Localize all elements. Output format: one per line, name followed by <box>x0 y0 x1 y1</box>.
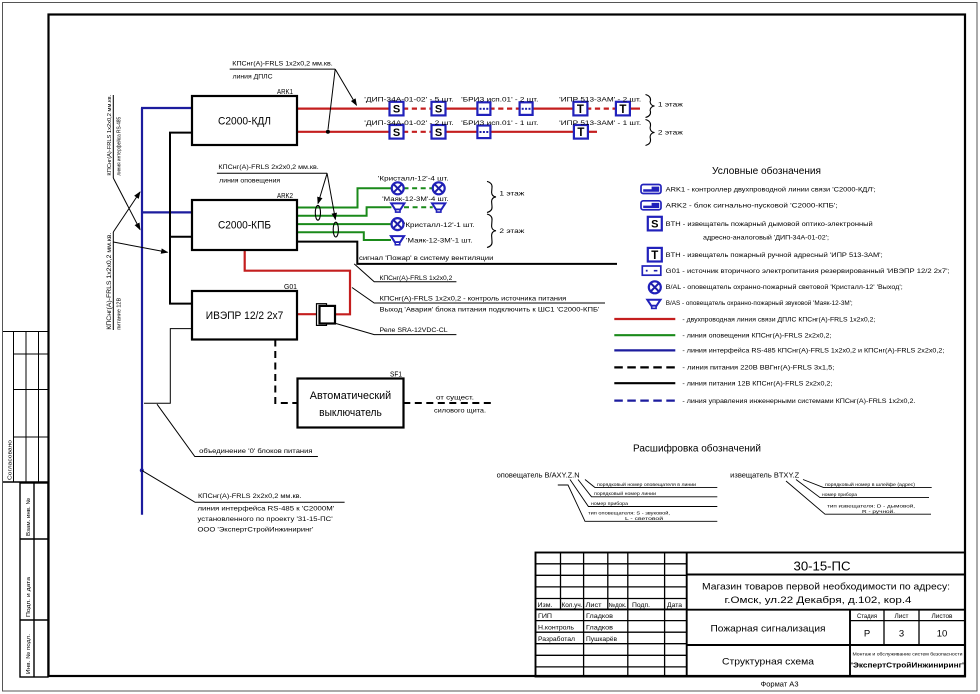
svg-text:ARK1: ARK1 <box>277 89 293 96</box>
svg-text:- двухпроводная линия связи ДП: - двухпроводная линия связи ДПЛС КПСнг(А… <box>682 316 875 323</box>
svg-text:порядковый номер в шлейфе (адр: порядковый номер в шлейфе (адрес) <box>825 481 916 487</box>
svg-text:Расшифровка обозначений: Расшифровка обозначений <box>633 443 761 455</box>
svg-text:T: T <box>619 104 626 116</box>
svg-text:ARK2 - блок сигнально-пусковой: ARK2 - блок сигнально-пусковой 'С2000-КП… <box>666 202 838 210</box>
detector: manual IPR floor1 #1 <box>573 102 587 116</box>
svg-text:'БРИЗ исп.01' - 2 шт.: 'БРИЗ исп.01' - 2 шт. <box>461 96 538 103</box>
svg-text:Условные обозначения: Условные обозначения <box>712 165 821 177</box>
device ARK2: C2000-KPB block <box>192 200 297 250</box>
svg-text:Структурная схема: Структурная схема <box>722 657 815 668</box>
svg-text:- линия питания 12В КПСнг(А)-F: - линия питания 12В КПСнг(А)-FRLS 2х2х0,… <box>682 381 832 388</box>
svg-text:№док.: №док. <box>609 602 627 609</box>
wire: DPLS loop floor1 red segments <box>297 107 640 109</box>
svg-text:S: S <box>651 219 658 231</box>
wire: notification line 1 (Kristall floor1) <box>297 188 392 207</box>
svg-text:- линия оповещения КПСнг(А)-FR: - линия оповещения КПСнг(А)-FRLS 2х2х0,2… <box>682 333 831 340</box>
svg-text:ARK2: ARK2 <box>277 193 293 200</box>
wire: notification line 3 (Kristall floor2) <box>297 223 392 225</box>
svg-text:Подп.: Подп. <box>632 603 650 609</box>
wire: 12V branch to C2000-KPB <box>169 236 192 238</box>
svg-text:номер прибора: номер прибора <box>591 501 628 506</box>
svg-text:'ИПР 513-3АМ' - 2 шт.: 'ИПР 513-3АМ' - 2 шт. <box>559 96 641 103</box>
svg-text:SF1: SF1 <box>390 372 402 379</box>
sounder: Mayak-12 floor1 #1 <box>391 203 404 212</box>
svg-text:'ДИП-34А-01-02' - 2 шт.: 'ДИП-34А-01-02' - 2 шт. <box>364 120 454 127</box>
svg-text:КПСнг(А)-FRLS 1х2х0,2 мм.кв.: КПСнг(А)-FRLS 1х2х0,2 мм.кв. <box>106 232 113 329</box>
svg-text:Кол.уч.: Кол.уч. <box>562 603 583 609</box>
svg-text:С2000-КДЛ: С2000-КДЛ <box>218 116 271 128</box>
svg-text:ООО 'ЭкспертСтройИнжиниринг': ООО 'ЭкспертСтройИнжиниринг' <box>198 526 314 534</box>
svg-text:ИВЭПР 12/2 2х7: ИВЭПР 12/2 2х7 <box>206 310 284 322</box>
svg-text:от сущест.: от сущест. <box>436 395 474 402</box>
svg-text:ГИП: ГИП <box>538 613 552 620</box>
svg-text:объединение '0' блоков питания: объединение '0' блоков питания <box>199 447 313 455</box>
svg-text:линия ДПЛС: линия ДПЛС <box>233 74 273 81</box>
svg-text:КПСнг(А)-FRLS 1х2х0,2 мм.кв.: КПСнг(А)-FRLS 1х2х0,2 мм.кв. <box>232 61 333 68</box>
svg-text:Изм.: Изм. <box>538 603 553 609</box>
svg-text:номер прибора: номер прибора <box>822 492 857 497</box>
svg-text:линия интерфейса RS-485 к 'С2: линия интерфейса RS-485 к 'С2000М' <box>198 505 335 513</box>
leaders RS-485 label <box>113 178 140 230</box>
device ARK1: C2000-KDL controller <box>192 96 297 145</box>
sounder: Mayak-12 floor2 <box>391 236 404 245</box>
svg-text:Гладков: Гладков <box>586 613 614 620</box>
detector: smoke DIP-34A floor2 #2 <box>432 125 446 139</box>
module: BRIZ floor1 #1 <box>477 102 490 115</box>
wire: 12V power black vertical trunk <box>169 133 171 304</box>
legend icon power supply G01 <box>642 266 661 275</box>
svg-text:ARK1 - контроллер двухпроводно: ARK1 - контроллер двухпроводной линии св… <box>666 185 876 193</box>
wire: blue branch to C2000-KDL <box>141 107 192 109</box>
svg-text:- линия интерфейса RS-485 КПСн: - линия интерфейса RS-485 КПСнг(А)-FRLS … <box>682 347 944 355</box>
svg-text:КПСнг(А)-FRLS 1х2х0,2 - контро: КПСнг(А)-FRLS 1х2х0,2 - контроль источни… <box>380 295 567 302</box>
wire: notification line 2 (Mayak floor1) <box>297 207 391 216</box>
leader to ellipse 1 <box>318 173 327 203</box>
svg-text:S: S <box>393 127 400 139</box>
module: BRIZ floor2 <box>477 126 490 139</box>
annunciator: Kristall-12 floor2 <box>392 218 404 230</box>
svg-text:BTH - извещатель пожарный ручн: BTH - извещатель пожарный ручной адресны… <box>666 251 883 259</box>
svg-text:Реле SRA-12VDC-CL: Реле SRA-12VDC-CL <box>380 327 449 334</box>
svg-text:1 этаж: 1 этаж <box>499 191 525 198</box>
wire: DPLS loop floor2 red segments <box>297 131 597 133</box>
svg-text:г.Омск, ул.22 Декабря, д.102,: г.Омск, ул.22 Декабря, д.102, кор.4 <box>725 595 912 605</box>
detector: smoke DIP-34A floor1 #1 <box>390 102 404 116</box>
wire: blue branch to C2000-KPB <box>141 211 192 213</box>
svg-text:оповещатель B/AXY.Z.N: оповещатель B/AXY.Z.N <box>497 473 580 480</box>
svg-text:Н.контроль: Н.контроль <box>538 625 575 632</box>
device SF1: automatic circuit breaker <box>298 379 404 428</box>
svg-text:'ДИП-34А-01-02' - 5 шт.: 'ДИП-34А-01-02' - 5 шт. <box>364 96 454 103</box>
svg-text:B/AS - оповещатель охранно-пож: B/AS - оповещатель охранно-пожарный звук… <box>666 299 853 307</box>
module: BRIZ floor1 #2 <box>520 102 533 115</box>
brace floor1 (notification) <box>487 181 496 212</box>
svg-text:Гладков: Гладков <box>586 625 614 632</box>
svg-text:R - ручной.: R - ручной. <box>862 508 895 514</box>
svg-text:T: T <box>577 127 584 139</box>
svg-text:L - световой: L - световой <box>625 515 664 521</box>
svg-text:'ИПР 513-3АМ' - 1 шт.: 'ИПР 513-3АМ' - 1 шт. <box>559 120 641 127</box>
annunciator: Kristall-12 floor1 #1 <box>392 182 404 194</box>
wire: IVEPR output to relay <box>297 313 320 315</box>
svg-text:извещатель BTXY.Z: извещатель BTXY.Z <box>730 473 800 480</box>
svg-text:Согласовано: Согласовано <box>8 440 14 480</box>
wire: 220V mains dashed from breaker to existing panel <box>403 402 491 404</box>
svg-text:силового щита.: силового щита. <box>434 408 486 415</box>
svg-text:порядковый номер оповещателя в: порядковый номер оповещателя в линии <box>597 481 696 487</box>
svg-text:'ЭкспертСтройИнжиниринг': 'ЭкспертСтройИнжиниринг' <box>851 661 964 670</box>
svg-text:выключатель: выключатель <box>319 407 382 419</box>
wire: power supply monitoring red line KPB to relay <box>245 250 350 314</box>
brace floor2 (notification) <box>487 214 496 248</box>
cable group mark ellipse 1 <box>315 205 320 220</box>
wire: RS-485 interface blue vertical trunk <box>141 108 143 515</box>
svg-text:B/AL - оповещатель охранно-пож: B/AL - оповещатель охранно-пожарный свет… <box>666 283 903 291</box>
svg-text:'Маяк-12-3М'-4 шт.: 'Маяк-12-3М'-4 шт. <box>382 196 449 203</box>
svg-text:10: 10 <box>937 629 948 640</box>
wire: 12V branch to IVEPR <box>169 303 192 305</box>
svg-text:Монтаж и обслуживание систем б: Монтаж и обслуживание систем безопасност… <box>853 652 964 657</box>
svg-text:Пожарная сигнализация: Пожарная сигнализация <box>711 624 826 635</box>
svg-text:Магазин товаров первой необход: Магазин товаров первой необходимости по … <box>702 582 950 592</box>
relay SRA-12VDC-CL symbol <box>317 304 336 326</box>
svg-text:Выход 'Авария' блока питания п: Выход 'Авария' блока питания подключить … <box>380 306 600 314</box>
title block grid <box>536 553 966 677</box>
wire: notification line 4 (Mayak floor2) <box>297 232 391 240</box>
legend icon manual detector <box>648 248 662 262</box>
detector: smoke DIP-34A floor2 #1 <box>390 125 404 139</box>
svg-text:S: S <box>435 127 442 139</box>
wire: 12V branch to C2000-KDL <box>169 132 192 134</box>
svg-text:2 этаж: 2 этаж <box>499 228 525 235</box>
device G01: IVEPR 12/2 power supply <box>192 291 297 340</box>
svg-text:Лист: Лист <box>586 603 602 609</box>
svg-text:G01 - источник вторичного элек: G01 - источник вторичного электропитания… <box>666 267 950 275</box>
svg-text:адресно-аналоговый 'ДИП-34А-01: адресно-аналоговый 'ДИП-34А-01-02'; <box>703 234 829 242</box>
svg-text:Пушкарёв: Пушкарёв <box>586 636 618 643</box>
legend icon ARK2 <box>641 201 661 210</box>
svg-text:Листов: Листов <box>932 614 953 620</box>
svg-text:порядковый номер линии: порядковый номер линии <box>594 490 656 496</box>
svg-text:S: S <box>435 104 442 116</box>
svg-text:- линия управления инженерными: - линия управления инженерными системами… <box>682 398 915 405</box>
svg-text:КПСнг(А)-FRLS 2х2х0,2 мм.кв.: КПСнг(А)-FRLS 2х2х0,2 мм.кв. <box>218 164 319 171</box>
svg-text:G01: G01 <box>284 284 297 291</box>
svg-text:Инв. № подл.: Инв. № подл. <box>26 633 32 674</box>
svg-text:Автоматический: Автоматический <box>310 390 391 402</box>
svg-text:BTH - извещатель пожарный дымо: BTH - извещатель пожарный дымовой оптико… <box>666 220 873 228</box>
wire: zero-bus thin line from IVEPR <box>144 329 192 404</box>
svg-text:сигнал 'Пожар' в систему венти: сигнал 'Пожар' в систему вентиляции <box>359 255 494 262</box>
svg-text:Лист: Лист <box>895 614 909 620</box>
left margin table (Согласовано) <box>3 332 48 483</box>
leader to DPLS floor1 line <box>335 69 356 105</box>
svg-text:линия оповещения: линия оповещения <box>219 178 280 185</box>
svg-text:С2000-КПБ: С2000-КПБ <box>218 220 271 232</box>
svg-text:S: S <box>393 104 400 116</box>
svg-text:КПСнг(А)-FRLS 2х2х0,2 мм.кв.: КПСнг(А)-FRLS 2х2х0,2 мм.кв. <box>198 493 302 500</box>
svg-text:Подп. и дата: Подп. и дата <box>26 576 32 617</box>
detector: smoke DIP-34A floor1 #2 <box>432 102 446 116</box>
svg-text:тип оповещателя: S - звуковой,: тип оповещателя: S - звуковой, <box>588 510 670 516</box>
sounder: Mayak-12 floor1 #2 <box>432 203 445 212</box>
brace floor1 (DPLS) <box>646 95 655 118</box>
svg-text:T: T <box>651 250 658 262</box>
legend icon smoke detector <box>648 217 662 231</box>
svg-text:Разработал: Разработал <box>538 635 575 643</box>
svg-text:Дата: Дата <box>667 603 683 609</box>
svg-text:'Кристалл-12'-1 шт.: 'Кристалл-12'-1 шт. <box>404 222 475 229</box>
svg-text:2 этаж: 2 этаж <box>658 130 684 137</box>
legend line samples <box>614 318 675 320</box>
wire: 220V mains dashed from IVEPR to breaker <box>275 340 297 404</box>
svg-text:3: 3 <box>899 629 904 640</box>
legend icon ARK1 <box>641 185 661 194</box>
leader to DPLS floor2 line <box>328 69 335 129</box>
leader to ellipse 2 <box>327 173 335 219</box>
node: blue junction on RS-485 trunk <box>140 468 144 472</box>
svg-text:30-15-ПС: 30-15-ПС <box>794 560 851 574</box>
svg-text:установленного по проекту '31-: установленного по проекту '31-15-ПС' <box>198 516 333 523</box>
legend icon Kristall <box>649 281 661 293</box>
detector: manual IPR floor1 #2 <box>616 102 630 116</box>
cable group mark ellipse 2 <box>333 222 338 237</box>
svg-text:тип извещателя: D - дымовой,: тип извещателя: D - дымовой, <box>827 503 915 509</box>
svg-text:КПСнг(А)-FRLS 1х2х0,2 мм.кв.: КПСнг(А)-FRLS 1х2х0,2 мм.кв. <box>107 94 113 175</box>
svg-text:Формат А3: Формат А3 <box>761 682 799 689</box>
annunciator: Kristall-12 floor1 #2 <box>433 182 445 194</box>
svg-text:'Маяк-12-3М'-1 шт.: 'Маяк-12-3М'-1 шт. <box>406 238 473 245</box>
svg-text:'Кристалл-12'-4 шт.: 'Кристалл-12'-4 шт. <box>378 176 449 183</box>
svg-text:питание 12В: питание 12В <box>117 298 123 330</box>
svg-text:'БРИЗ исп.01' - 1 шт.: 'БРИЗ исп.01' - 1 шт. <box>461 120 538 127</box>
svg-text:Взам. инв. №: Взам. инв. № <box>26 498 32 536</box>
svg-text:Р: Р <box>864 629 870 640</box>
svg-text:- линия питания 220В ВВГнг(А)-: - линия питания 220В ВВГнг(А)-FRLS 3х1,5… <box>682 365 834 372</box>
svg-text:T: T <box>577 104 584 116</box>
svg-text:1 этаж: 1 этаж <box>658 102 684 109</box>
left margin table (Взам/Подп/Инв) <box>20 483 48 677</box>
brace floor2 (DPLS) <box>646 120 655 146</box>
svg-text:Стадия: Стадия <box>857 614 877 620</box>
svg-text:линия интерфейса RS-485: линия интерфейса RS-485 <box>116 117 123 176</box>
legend icon Mayak <box>647 300 660 309</box>
detector: manual IPR floor2 <box>574 125 588 139</box>
wire: fire signal to ventilation system <box>297 242 617 264</box>
svg-text:КПСнг(А)-FRLS 1х2х0,2: КПСнг(А)-FRLS 1х2х0,2 <box>380 275 453 282</box>
